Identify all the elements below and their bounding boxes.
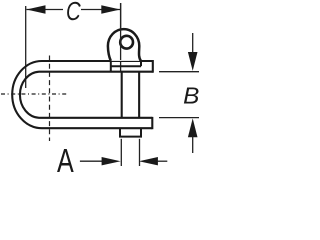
pin shaft left side	[121, 72, 123, 118]
shackle body outer contour	[12, 61, 153, 128]
pin shaft right side	[138, 72, 140, 118]
pin boss right edge	[140, 61, 142, 66]
A dimension line left segment	[80, 160, 102, 162]
B bottom arrowhead	[188, 118, 198, 137]
label C	[66, 0, 81, 25]
svg-text:C: C	[66, 0, 81, 25]
horizontal dash-dot centerline of bend	[1, 93, 68, 95]
vertical dashed line at bend tangent	[49, 56, 51, 142]
C dimension left arrowhead	[27, 5, 46, 13]
bottom strap right end cap	[151, 117, 153, 129]
B bottom extension line	[159, 117, 199, 119]
B top arrowhead	[188, 52, 198, 71]
svg-text:A: A	[57, 143, 74, 178]
top strap right end cap	[152, 60, 154, 73]
A dimension line right tail	[158, 160, 168, 162]
pin centerline / C right extension line	[120, 3, 122, 72]
pin eye inner hole	[120, 36, 133, 49]
label B	[183, 84, 199, 109]
label A	[57, 143, 74, 180]
svg-text:B: B	[183, 84, 199, 109]
B bottom arrow shaft	[192, 136, 194, 153]
centerline continued over ring	[120, 3, 122, 60]
pin boss in top strap: left edge	[110, 61, 112, 72]
C dimension line right segment	[81, 9, 120, 11]
pin eye outer ring with neck	[108, 29, 141, 61]
A right arrowhead (pointing left)	[139, 157, 158, 165]
A right extension line	[139, 139, 141, 166]
C dimension line left segment	[27, 9, 64, 11]
C dimension left extension line	[25, 6, 27, 88]
shackle body inner contour	[20, 72, 153, 118]
pin boss bottom line	[111, 65, 141, 67]
A left arrowhead (pointing right)	[102, 157, 121, 165]
C dimension right arrowhead	[101, 5, 120, 13]
pin bottom end plate	[120, 129, 141, 137]
B top extension line	[159, 71, 199, 73]
A left extension line	[120, 139, 122, 166]
B top arrow shaft	[192, 33, 194, 53]
